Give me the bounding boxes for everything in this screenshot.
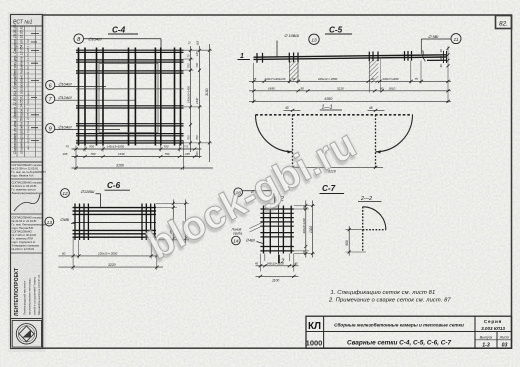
beam C-5 cross bars group 2 [289,53,298,63]
mesh C-7 horizontal wires [260,209,293,251]
svg-text:нач. отдела Сидоров 20.05.81г.: нач. отдела Сидоров 20.05.81г. утвержден… [26,39,30,150]
C-4 right dim line 2 [199,46,201,158]
C-4 right dim line 1 [190,46,192,152]
marker circle 6 [46,81,55,90]
beam C-5 cross bars group 5 [405,51,412,61]
svg-text:∅12ВШ: ∅12ВШ [81,189,95,194]
svg-text:3160: 3160 [205,88,209,96]
svg-text:1430: 1430 [118,152,125,156]
section cut line 2-2 through mesh [278,202,280,255]
svg-text:№ 12-354 от 12.05.81: № 12-354 от 12.05.81 [12,167,39,171]
beam C-5 end bar [444,51,447,63]
stamp mid text block [12,163,46,178]
stamp table verticals [17,26,36,157]
svg-text:∅ 10ВШ: ∅ 10ВШ [284,33,299,38]
C-7 right extensions [294,206,315,254]
C-6 bottom extensions [73,238,157,270]
C-6 dim row 1 [59,255,164,257]
svg-text:Гл. инженер ЛПИ: Гл. инженер ЛПИ [12,237,34,241]
beam C-5 cross bars group 4 [380,58,382,92]
section 1-1 bottom dim [285,166,383,168]
section flag 2 bottom [278,255,280,263]
svg-text:75: 75 [186,54,190,58]
C-7 dim row 2 [256,275,299,277]
svg-text:С-7: С-7 [322,184,336,193]
svg-text:№ 210 от 12.06.81: № 210 от 12.06.81 [12,247,35,251]
section 2-2 vertical toothed edge [362,207,364,230]
svg-text:Сборные железобетонные камеры: Сборные железобетонные камеры и тепловые… [334,322,464,328]
hatch strip under group 2 [290,61,299,81]
svg-text:700: 700 [164,145,169,149]
svg-text:Гл. инж. Ленгипроинжпроект: Гл. инж. Ленгипроинжпроект [12,223,48,227]
svg-text:Серия: Серия [484,319,502,324]
leader mark 13 C-7 [243,191,275,205]
C-4 dim row 2 [72,156,202,158]
svg-text:1690: 1690 [268,87,275,91]
svg-text:700: 700 [165,152,170,156]
leader mark 8 [84,39,161,50]
svg-text:700: 700 [186,63,190,68]
svg-text:30: 30 [439,64,443,67]
title block sub row lines [475,339,512,341]
svg-text:1: 1 [240,53,244,60]
svg-text:СОГЛАСОВАНО письмо: СОГЛАСОВАНО письмо [12,181,43,185]
section 2-2 horizontal toothed edge [363,229,386,231]
beam C-5 cross bars left pair [257,53,263,63]
svg-text:165: 165 [195,51,199,56]
C-6 right extensions [156,204,189,240]
leader mark 14 [257,242,264,244]
svg-text:165: 165 [196,40,200,45]
svg-text:1320: 1320 [309,226,313,233]
svg-text:1610: 1610 [389,87,396,91]
marker circle 13 (C-7) [234,188,243,197]
hatch strip under group 3 [369,60,379,84]
beam C-5 top chord [254,55,447,57]
svg-text:13: 13 [311,38,317,44]
svg-text:Выпуск: Выпуск [480,336,493,340]
title block col line 3 [496,332,498,349]
C-7 bottom extensions [260,254,293,272]
C-6 dim row 2 [59,266,164,268]
svg-text:200х7=1400: 200х7=1400 [382,77,399,81]
svg-text:1100: 1100 [272,278,279,282]
marker circle 8 [74,34,84,44]
signature stroke [14,194,40,211]
svg-text:КЛ: КЛ [308,321,321,332]
svg-text:45: 45 [285,106,289,110]
svg-text:165: 165 [185,152,190,156]
title block outer [306,316,512,348]
C-7 dim row 1 [256,265,299,267]
break squiggle [423,51,426,62]
mesh C-4 faint middle bar [76,88,184,90]
svg-text:Утверждено приказом: Утверждено приказом [12,244,40,248]
C-6 right dim line 1 [172,200,174,244]
svg-text:75: 75 [66,145,70,149]
C-7 right rotated labels [302,206,313,254]
svg-text:С-6: С-6 [107,181,121,190]
stamp table rows [11,31,43,157]
svg-text:С-4: С-4 [112,25,126,34]
mesh C-7 vertical bars [264,206,292,254]
svg-text:СОГЛАСОВАНО: СОГЛАСОВАНО [12,230,32,234]
section 1-1 right leg [375,115,377,169]
mesh C-6 middle faint wire [73,222,157,224]
marker circle 9 [46,124,55,133]
C-4 bottom extension lines [76,141,184,170]
svg-text:подп. Петров В.В.: подп. Петров В.В. [12,226,34,230]
svg-text:700: 700 [195,135,199,140]
svg-text:145х10=1010: 145х10=1010 [267,262,284,266]
svg-text:11: 11 [454,37,459,43]
svg-text:1-3: 1-3 [482,342,490,348]
C-7 right dim line 2 [312,201,314,258]
C-7 right dim line 1 [305,201,307,258]
mesh C-6 horizontal wires [73,208,157,238]
C-5 dim row 1 [249,80,451,82]
marker circle 11 [451,34,461,44]
svg-text:6350: 6350 [325,97,333,101]
svg-text:200х7=1400+50: 200х7=1400+50 [264,77,286,81]
svg-text:90: 90 [301,87,305,91]
svg-text:145х13=1850: 145х13=1850 [107,145,125,149]
leader mark 12 [96,194,101,207]
svg-text:ЛЕНТЕПЛОПРОЕКТ: ЛЕНТЕПЛОПРОЕКТ [14,268,20,316]
svg-text:Гл. инж. ин-та ЛенЗНИИЭП: Гл. инж. ин-та ЛенЗНИИЭП [12,170,46,174]
svg-text:1. Спецификацию сеток см. лист: 1. Спецификацию сеток см. лист 81 [331,290,436,296]
svg-text:600: 600 [345,240,349,246]
title block col line 1 [323,316,325,348]
svg-text:145х10=1450: 145х10=1450 [186,86,190,103]
svg-text:∅10АIII: ∅10АIII [58,124,72,129]
svg-text:∅4ВI: ∅4ВI [246,237,256,242]
C-5 dim row 3 [249,100,451,102]
svg-text:сетей и сооружений Главка: сетей и сооружений Главка [33,277,37,315]
leader mark 13 C-5 [276,41,278,57]
section 2-2 dim 600 [346,230,367,252]
marker circle 14 [232,236,241,245]
svg-text:50: 50 [292,77,296,81]
svg-text:45: 45 [295,262,299,266]
mesh C-6 vertical bars right band [142,204,155,241]
svg-text:Лист: Лист [499,336,510,340]
svg-text:700: 700 [186,135,190,140]
svg-text:∅12АIII: ∅12АIII [58,95,72,100]
svg-text:Ленинградгражданпроект: Ленинградгражданпроект [12,191,45,195]
title block col line 2 [474,316,476,348]
stamp mid block 1 lines [11,161,43,163]
svg-text:подп. Сидоров К.Н.: подп. Сидоров К.Н. [12,240,36,244]
marker circle 13 (C-5) [309,34,319,44]
section 1-1 left arc [256,115,293,152]
marker circle 7 [46,94,55,103]
svg-text:700: 700 [91,152,96,156]
svg-text:03: 03 [502,342,508,348]
svg-text:Гл. инженер треста: Гл. инженер треста [12,188,37,192]
svg-text:60: 60 [302,250,306,254]
svg-text:13: 13 [47,220,53,226]
C-5 right end dim [447,47,450,68]
mesh C-4 inner bent-bar outline [99,64,158,133]
svg-text:3210: 3210 [337,87,344,91]
svg-text:3220: 3220 [108,263,116,267]
section 1-1 right arc [376,115,413,152]
svg-text:60: 60 [62,252,66,256]
svg-text:75: 75 [415,77,419,81]
marker circle 13 (C-6) [45,217,54,226]
svg-text:подп. Иванов А.И.: подп. Иванов А.И. [12,174,35,178]
svg-text:№ 44-03 от 22.04.81: № 44-03 от 22.04.81 [12,219,38,223]
left stamp strip outer box [11,15,43,349]
stamp logo box [11,318,43,320]
svg-text:∅ 5ВI: ∅ 5ВI [428,34,439,39]
leader mark 11 [421,39,451,54]
watermark block-gbi.ru [137,120,366,272]
svg-text:30: 30 [439,49,443,52]
svg-text:Ленинградский институт: Ленинградский институт [23,280,27,315]
C-5 dim extension lines [254,46,449,103]
svg-text:75: 75 [187,41,191,45]
section 2-2 arc [363,207,386,230]
section 1-1 toothed top line [256,114,413,116]
svg-text:Сварные сетки С-4, С-5, С-6,: Сварные сетки С-4, С-5, С-6, С-7 [347,339,451,346]
C-4 dim row 3 total [72,167,214,169]
svg-text:12: 12 [62,191,68,197]
svg-text:№ 8-221 от 03.04.81: № 8-221 от 03.04.81 [12,184,38,188]
svg-text:1430: 1430 [195,97,199,104]
svg-text:СОГЛАСОВАНО письмо: СОГЛАСОВАНО письмо [12,163,43,167]
svg-text:1—1: 1—1 [322,104,333,110]
svg-text:45: 45 [255,262,259,266]
svg-text:165: 165 [63,152,68,156]
stamp dense text block [12,216,48,252]
svg-text:14: 14 [233,239,239,245]
svg-text:165: 165 [195,151,199,156]
scan tint over stamp strip [8,12,46,352]
svg-text:1000: 1000 [306,339,323,348]
leader mark 9 [55,129,120,131]
stamp logo circle [16,324,36,344]
C-4 right dim line 3 [208,44,210,162]
svg-text:Миннефтегазстроя СССР г.Л.: Миннефтегазстроя СССР г.Л. [37,274,41,315]
bend line leaders [250,223,263,233]
svg-text:82.: 82. [499,21,508,28]
stamp logo diamond [19,326,34,342]
stamp signature box [11,178,43,180]
C-4 right rotated labels [186,51,199,156]
title block mid row line [306,331,512,333]
svg-text:110: 110 [439,56,443,61]
section 1-1 left leg [292,115,294,169]
svg-text:9: 9 [49,126,52,132]
svg-text:300х4=1200: 300х4=1200 [302,218,306,234]
beam C-5 right lower rod [427,59,447,61]
mesh C-4 vertical bars [79,48,181,146]
C-4 right extension lines [184,50,213,143]
svg-text:∅10АIII: ∅10АIII [58,81,72,86]
svg-text:40: 40 [371,77,375,81]
stamp entry marks [31,34,39,141]
section 1-1 dim 45 right [368,109,385,111]
section flag 2 top [278,193,280,202]
svg-text:3.003 КЛ13: 3.003 КЛ13 [481,326,505,331]
svg-text:№ 7-115 от 30.04.81: № 7-115 от 30.04.81 [12,233,37,237]
svg-text:700: 700 [89,145,94,149]
svg-text:75: 75 [253,77,257,81]
leader mark 7 [55,99,136,101]
leader mark 6 [55,86,106,88]
beam C-5 cross bars group 3 [369,52,378,62]
C-4 dim row 1 [72,148,202,150]
svg-text:700: 700 [195,62,199,67]
svg-text:2. Примечание о сварке сеток с: 2. Примечание о сварке сеток см. лист. 8… [328,298,451,304]
svg-text:200х14 = 2800: 200х14 = 2800 [317,77,338,81]
svg-text:45: 45 [369,106,373,110]
svg-text:2—2: 2—2 [360,196,372,202]
svg-text:гл.инженер проекта Петров 14.0: гл.инженер проекта Петров 14.05.81 согла… [20,25,24,154]
mesh C-4 horizontal bars [76,50,184,143]
mesh C-6 vertical bars left band [75,204,88,241]
svg-text:Согласовано гл.инж. Иванов 12.: Согласовано гл.инж. Иванов 12.05.81г Утв… [13,23,17,154]
C-6 right dim line 2 [185,200,187,244]
beam C-5 bottom chord [254,57,447,59]
svg-text:60: 60 [302,206,306,210]
stamp strip header box [11,25,43,27]
svg-text:проектирования тепловых: проектирования тепловых [28,278,32,315]
section 2-2 tail [362,230,364,252]
svg-text:3160: 3160 [116,164,124,168]
leader mark 13 C-6 [71,223,75,225]
marker circle 12 [61,189,70,198]
C-5 dim row 2 [249,90,451,92]
svg-text:7.5: 7.5 [184,145,188,149]
svg-text:90: 90 [380,87,384,91]
svg-text:∅4ВI: ∅4ВI [60,217,70,222]
svg-text:СОГЛАСОВАНО письмо: СОГЛАСОВАНО письмо [12,216,43,220]
page number box [496,16,512,29]
section 1-1 dim 45 left [284,109,301,111]
svg-text:230х15 = 3000: 230х15 = 3000 [97,252,118,256]
svg-text:С-5: С-5 [329,25,343,34]
